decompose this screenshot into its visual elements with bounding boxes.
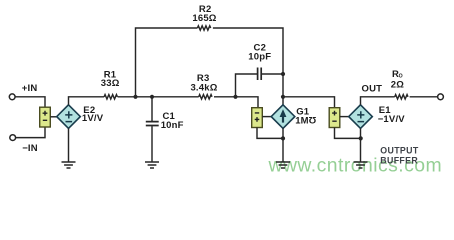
wire R1 to R3 (through junctions) [118,96,199,98]
svg-text:OUTPUT: OUTPUT [380,146,419,156]
wire E1 sense to E1 diamond [340,116,349,118]
wire R2 vertical into G1 output node [282,74,284,105]
watermark www.cntronics.com [268,155,443,177]
wire E2 diamond bottom to ground [68,128,70,161]
junction node at C2 tap [233,95,237,99]
label G1 value 1Mmho [295,114,316,126]
wire E1 diamond top to OUT / RO [361,97,395,105]
junction node at C1 tap [150,95,154,99]
svg-text:O: O [399,73,403,79]
label R2 [199,4,212,15]
resistor R2 [197,26,210,30]
wire C1 branch (down from main) [151,97,153,121]
dependent source E1 (diamond) [349,105,373,129]
svg-text:1V/V: 1V/V [82,113,104,124]
label G1 [296,106,310,117]
dependent current source G1 (diamond with arrow) [271,105,295,129]
wire G1 node to E1 sense [283,97,335,108]
label C2 [254,42,267,53]
wire C1 to ground [151,126,153,162]
label RO value 2ohm [391,80,404,91]
label E1 [379,105,392,116]
wire G1 diamond bottom to tie [282,128,284,161]
wire R3 to G1 sense [214,97,258,108]
svg-text:−1V/V: −1V/V [378,114,406,125]
junction node G1 ground tie [281,136,285,140]
label C1 value 10nF [161,120,184,131]
wire E1 sense bottom tie [335,128,362,139]
label +IN [22,83,38,94]
wire RO to output terminal [410,96,438,98]
svg-text:10pF: 10pF [248,51,271,62]
label C1 [163,111,176,122]
label R1 [104,69,117,80]
wire G1 sense to G1 diamond [262,116,271,118]
resistor R3 [199,95,212,99]
junction node at R1/R2 tap [133,95,137,99]
wire C2 branch (up and right) [236,74,258,97]
svg-text:OUT: OUT [362,84,383,95]
E2 sense element (polarity box) [40,107,51,127]
G1 sense element (polarity box) [252,108,263,128]
capacitor C2 [258,68,262,81]
label E2 [83,105,95,116]
capacitor C1 [146,122,159,126]
svg-text:10nF: 10nF [161,120,184,131]
label -IN [22,143,38,154]
junction node E1 ground tie [359,136,363,140]
svg-text:1M: 1M [295,115,309,126]
dependent source E2 (diamond) [57,105,81,129]
wire G1 sense bottom tie [257,128,283,139]
label R3 [197,73,210,84]
terminal output [438,94,444,100]
wire +IN terminal to E2 sense top [15,97,45,108]
resistor R1 [104,95,117,99]
svg-text:−IN: −IN [22,143,38,154]
label OUT [362,84,383,95]
svg-text:2Ω: 2Ω [391,80,404,91]
label E2 value 1V/V [82,113,104,124]
junction node G1 output [281,95,285,99]
svg-text:+IN: +IN [22,83,38,94]
svg-text:3.4kΩ: 3.4kΩ [190,82,217,93]
label R3 value 3.4kohm [190,82,217,93]
wire E1 diamond bottom to ground [360,128,362,161]
label E1 value -1V/V [378,114,406,125]
svg-text:33Ω: 33Ω [101,78,120,89]
terminal +IN [9,94,15,100]
label C2 value 10pF [248,51,271,62]
wire C2 to output node vertical [262,73,283,75]
junction node C2/R2 vertical [281,72,285,76]
ground below E2 [62,162,76,168]
label R2 value 165ohm [192,13,216,24]
wire -IN terminal to E2 sense bottom [16,127,45,138]
wire E2 sense to E2 diamond [50,116,57,118]
svg-text:165Ω: 165Ω [192,13,216,24]
svg-text:BUFFER: BUFFER [380,156,418,166]
label R1 value 33ohm [101,78,120,89]
wire R2 feedback rail (up, across top) [136,28,284,97]
ground below E1 [354,162,368,168]
label OUTPUT BUFFER [380,146,419,166]
E1 sense element (polarity box) [329,108,340,128]
ground below C1 [145,162,159,168]
svg-text:Ω: Ω [308,114,316,125]
label RO [392,69,403,80]
terminal -IN [10,135,16,141]
wire E2 diamond top to R1 [69,97,105,105]
resistor RO [395,95,408,99]
ground below G1 [276,162,290,168]
